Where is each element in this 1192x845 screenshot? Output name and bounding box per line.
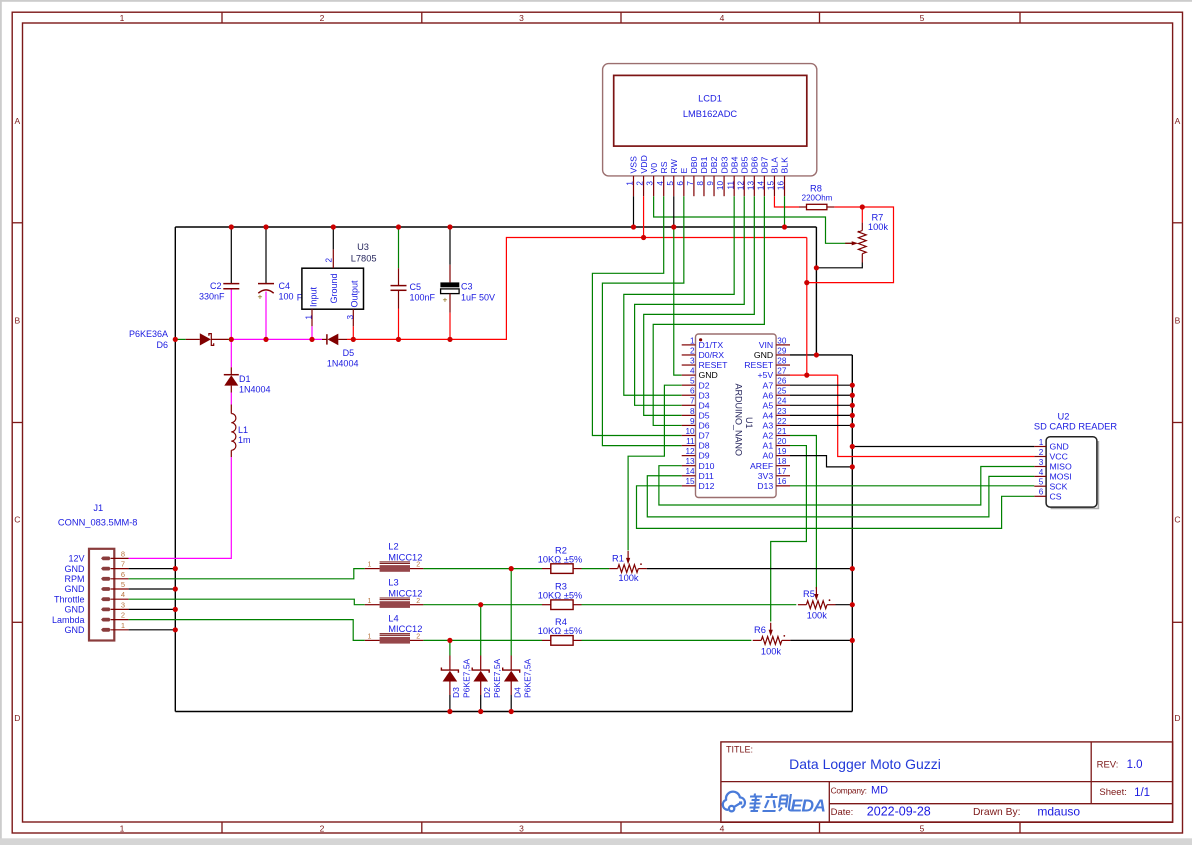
LCD1 pin 15 BLA bbox=[773, 176, 775, 196]
diode D1 1N4004 bbox=[230, 339, 232, 367]
svg-text:P6KE36A: P6KE36A bbox=[129, 329, 168, 339]
wire R4 to R6 bbox=[582, 639, 752, 641]
LCD1 pin 5 RW bbox=[673, 176, 675, 196]
frame column tick top bbox=[819, 12, 821, 23]
resistor R3 10K bbox=[542, 604, 551, 606]
U1 right pin 22 A3 bbox=[776, 424, 790, 426]
svg-text:C: C bbox=[14, 515, 20, 525]
svg-text:V0: V0 bbox=[649, 163, 659, 174]
svg-text:MICC12: MICC12 bbox=[388, 588, 422, 598]
junction A3 bbox=[850, 423, 855, 428]
svg-text:D1: D1 bbox=[239, 374, 251, 384]
svg-text:D3: D3 bbox=[699, 390, 710, 400]
svg-text:12: 12 bbox=[685, 447, 695, 456]
svg-text:L7805: L7805 bbox=[351, 254, 377, 264]
LCD1 pin 3 V0 bbox=[653, 176, 655, 196]
svg-text:D13: D13 bbox=[757, 481, 773, 491]
mcu U1 ARDUINO_NANO body bbox=[696, 334, 777, 498]
connector J1 pin 8 bbox=[101, 557, 111, 561]
svg-text:L3: L3 bbox=[388, 578, 398, 588]
potentiometer R1 bbox=[609, 568, 618, 570]
svg-text:100k: 100k bbox=[618, 573, 639, 583]
svg-text:24: 24 bbox=[777, 397, 787, 406]
svg-text:6: 6 bbox=[1039, 488, 1044, 497]
junction SD GND bbox=[850, 444, 855, 449]
wire A6 to GND edge bbox=[790, 394, 852, 396]
wire LCD DB5 to D4 bbox=[635, 196, 745, 405]
display LCD1 outer body bbox=[603, 64, 817, 176]
svg-text:D4: D4 bbox=[699, 400, 710, 410]
wire R5 to GND edge bbox=[836, 604, 853, 606]
svg-text:MICC12: MICC12 bbox=[388, 624, 422, 634]
wire R2 to R1 bbox=[582, 568, 610, 570]
junction R5 out bbox=[850, 602, 855, 607]
U1 left pin 12 D9 bbox=[682, 455, 696, 457]
junction GND rail VSS bbox=[631, 224, 636, 229]
frame column tick bottom bbox=[819, 822, 821, 833]
junction J1 GND1 bbox=[173, 627, 178, 632]
regulator U3 pin 3 bbox=[352, 309, 354, 326]
wire D11 to SD MOSI bbox=[647, 476, 1034, 517]
U1 left pin 1 D1/TX bbox=[682, 344, 696, 346]
svg-text:A5: A5 bbox=[763, 400, 774, 410]
svg-text:3: 3 bbox=[1039, 458, 1044, 467]
wire D2 to R1 wiper bbox=[628, 385, 682, 550]
junction R7 GND bbox=[814, 265, 819, 270]
junction +5V bbox=[804, 373, 809, 378]
junction J1 GND7 bbox=[173, 566, 178, 571]
wire +5V drop to SD VCC bbox=[838, 375, 1035, 456]
svg-text:20: 20 bbox=[777, 437, 787, 446]
svg-text:100: 100 bbox=[279, 292, 294, 302]
svg-text:MOSI: MOSI bbox=[1050, 472, 1072, 482]
window chrome bottom strip bbox=[0, 838, 1192, 845]
wire R3 to R5 bbox=[582, 604, 797, 606]
junction GND rail C5 bbox=[396, 224, 401, 229]
resistor R4 10K bbox=[542, 639, 551, 641]
LCD1 pin 13 DB6 bbox=[753, 176, 755, 196]
svg-text:RS: RS bbox=[659, 161, 669, 173]
svg-text:D0/RX: D0/RX bbox=[699, 350, 725, 360]
LCD1 pin 16 BLK bbox=[784, 176, 786, 196]
svg-text:1: 1 bbox=[120, 823, 125, 833]
svg-text:+: + bbox=[443, 295, 448, 305]
svg-text:13: 13 bbox=[746, 181, 755, 191]
wire LCD VSS to GND rail bbox=[633, 196, 635, 227]
wire LCD DB7 to D6 bbox=[653, 196, 764, 425]
wire GND drop at x=816 bbox=[815, 227, 817, 355]
capacitor C2 bbox=[230, 227, 232, 283]
svg-text:5: 5 bbox=[666, 181, 675, 186]
wire LCD RS to D7 bbox=[592, 196, 681, 435]
junction L4 D3 bbox=[447, 638, 452, 643]
wire L4 to R4 bbox=[423, 639, 542, 641]
svg-text:D2: D2 bbox=[482, 687, 492, 698]
connector J1 pin 4 bbox=[101, 597, 111, 601]
junction A6 bbox=[850, 393, 855, 398]
LCD1 pin 2 VDD bbox=[643, 176, 645, 196]
R7 wiper arrow bbox=[845, 242, 854, 244]
wire net to diode D3 bbox=[449, 640, 451, 655]
connector J1 pin 6 bbox=[101, 577, 111, 581]
capacitor C4 bbox=[265, 227, 267, 283]
LCD1 pin 11 DB4 bbox=[733, 176, 735, 196]
svg-text:GND: GND bbox=[65, 564, 86, 574]
svg-text:3: 3 bbox=[646, 181, 655, 186]
U1 pin1 marker dot bbox=[699, 338, 702, 341]
svg-text:A: A bbox=[14, 116, 20, 126]
frame row tick left bbox=[12, 222, 22, 224]
svg-text:D11: D11 bbox=[699, 471, 714, 481]
regulator U3 pin 1 bbox=[311, 309, 313, 326]
svg-text:VDD: VDD bbox=[639, 155, 649, 173]
svg-text:10KΩ ±5%: 10KΩ ±5% bbox=[538, 590, 583, 600]
svg-text:Ground: Ground bbox=[329, 273, 339, 303]
R6 wiper arrow bbox=[770, 623, 772, 632]
svg-text:8: 8 bbox=[121, 549, 125, 558]
wire D2 to GND rail bbox=[480, 695, 482, 712]
svg-text:2: 2 bbox=[690, 346, 695, 355]
svg-text:1uF 50V: 1uF 50V bbox=[461, 292, 495, 302]
frame column tick bottom bbox=[421, 822, 423, 833]
svg-text:3: 3 bbox=[121, 600, 125, 609]
svg-text:16: 16 bbox=[777, 181, 786, 191]
svg-text:6: 6 bbox=[676, 181, 685, 186]
frame column tick top bbox=[421, 12, 423, 23]
svg-text:D: D bbox=[1174, 713, 1180, 723]
svg-text:2: 2 bbox=[636, 181, 645, 186]
svg-text:Output: Output bbox=[350, 280, 360, 308]
junction A7 bbox=[850, 383, 855, 388]
svg-text:9: 9 bbox=[690, 417, 695, 426]
svg-text:1: 1 bbox=[367, 634, 371, 641]
LCD1 pin 10 DB3 bbox=[723, 176, 725, 196]
svg-text:2: 2 bbox=[416, 562, 420, 569]
svg-text:12: 12 bbox=[736, 181, 745, 191]
svg-text:Data Logger Moto Guzzi: Data Logger Moto Guzzi bbox=[789, 756, 941, 772]
diode D2 P6KE7,5A bbox=[480, 656, 482, 671]
svg-text:L4: L4 bbox=[388, 613, 398, 623]
svg-text:DB5: DB5 bbox=[739, 156, 749, 173]
svg-text:P6KE7,5A: P6KE7,5A bbox=[523, 658, 533, 698]
junction J1 GND5 bbox=[173, 586, 178, 591]
svg-text:30: 30 bbox=[777, 336, 787, 345]
svg-text:C2: C2 bbox=[210, 281, 222, 291]
svg-text:MICC12: MICC12 bbox=[388, 552, 422, 562]
svg-text:100k: 100k bbox=[868, 222, 889, 232]
svg-text:8: 8 bbox=[690, 407, 695, 416]
svg-text:U3: U3 bbox=[357, 242, 369, 252]
svg-text:4: 4 bbox=[121, 590, 125, 599]
svg-text:MISO: MISO bbox=[1050, 462, 1072, 472]
wire D12 to SD CS bbox=[637, 486, 1035, 529]
svg-text:D4: D4 bbox=[512, 687, 522, 698]
svg-text:1N4004: 1N4004 bbox=[239, 384, 271, 394]
svg-text:D8: D8 bbox=[699, 441, 710, 451]
svg-text:DB3: DB3 bbox=[719, 156, 729, 173]
svg-text:27: 27 bbox=[777, 367, 787, 376]
svg-text:DB2: DB2 bbox=[709, 156, 719, 173]
U1 left pin 4 GND bbox=[682, 374, 696, 376]
svg-text:220Ohm: 220Ohm bbox=[802, 193, 833, 202]
U1 right pin 20 A1 bbox=[776, 445, 790, 447]
svg-text:Date:: Date: bbox=[831, 807, 854, 818]
wire VDD red drop bbox=[806, 238, 808, 376]
LCD1 pin 12 DB5 bbox=[743, 176, 745, 196]
svg-text:D12: D12 bbox=[699, 481, 715, 491]
junction GND rail C4 bbox=[263, 224, 268, 229]
svg-text:D5: D5 bbox=[699, 410, 710, 420]
svg-text:1N4004: 1N4004 bbox=[327, 359, 359, 369]
wire GND right edge bbox=[851, 355, 853, 712]
svg-text:RW: RW bbox=[669, 158, 679, 173]
wire R1 to GND edge bbox=[647, 568, 853, 570]
frame column tick top bbox=[221, 12, 223, 23]
window chrome left strip bbox=[0, 0, 2, 845]
svg-text:9: 9 bbox=[706, 181, 715, 186]
svg-text:7: 7 bbox=[121, 560, 125, 569]
junction R6 out bbox=[850, 638, 855, 643]
svg-text:A6: A6 bbox=[763, 390, 774, 400]
U2 pin 6 CS bbox=[1034, 495, 1046, 497]
U1 right pin 21 A2 bbox=[776, 435, 790, 437]
junction node U3 pin3 bbox=[351, 337, 356, 342]
svg-text:GND: GND bbox=[754, 350, 773, 360]
svg-text:C4: C4 bbox=[279, 281, 291, 291]
junction GND corner bbox=[814, 352, 819, 357]
svg-text:R7: R7 bbox=[871, 213, 883, 223]
svg-text:10KΩ ±5%: 10KΩ ±5% bbox=[538, 554, 583, 564]
U2 pin 1 GND bbox=[1034, 446, 1046, 448]
wire J1 GND pin1 bbox=[129, 629, 176, 631]
U1 left pin 9 D6 bbox=[682, 424, 696, 426]
wire D10 to SD MISO bbox=[659, 466, 1034, 505]
junction D4 GND bbox=[509, 709, 514, 714]
svg-text:4: 4 bbox=[1039, 468, 1044, 477]
U1 left pin 14 D11 bbox=[682, 475, 696, 477]
svg-text:11: 11 bbox=[686, 437, 695, 446]
svg-text:1: 1 bbox=[304, 315, 313, 320]
wire LCD BLA to R8 bbox=[774, 196, 799, 207]
junction GND rail U3 bbox=[331, 224, 336, 229]
svg-text:J1: J1 bbox=[93, 503, 103, 513]
LCD1 pin 1 VSS bbox=[633, 176, 635, 196]
capacitor C3 bbox=[449, 227, 451, 265]
svg-text:B: B bbox=[14, 316, 20, 326]
svg-text:MD: MD bbox=[871, 785, 888, 797]
wire J1 GND pin5 bbox=[129, 588, 176, 590]
svg-text:5: 5 bbox=[690, 377, 695, 386]
svg-text:BLK: BLK bbox=[780, 157, 790, 174]
svg-text:17: 17 bbox=[777, 467, 787, 476]
svg-text:P6KE7,5A: P6KE7,5A bbox=[461, 658, 471, 698]
R5 wiper arrow bbox=[815, 587, 817, 596]
svg-text:D1/TX: D1/TX bbox=[699, 340, 724, 350]
connector J1 pin 7 bbox=[101, 567, 111, 571]
wire A0 jog to GND edge bbox=[790, 456, 852, 467]
U1 right pin 17 3V3 bbox=[776, 475, 790, 477]
U1 right pin 18 AREF bbox=[776, 465, 790, 467]
U1 left pin 5 D2 bbox=[682, 384, 696, 386]
svg-text:D6: D6 bbox=[699, 421, 710, 431]
svg-text:3V3: 3V3 bbox=[758, 471, 774, 481]
connector J1 pin 2 bbox=[101, 618, 111, 622]
LCD1 pin 4 RS bbox=[663, 176, 665, 196]
frame column tick top bbox=[1019, 12, 1021, 23]
svg-text:EDA: EDA bbox=[791, 796, 826, 816]
inductor L2 MICC12 bbox=[365, 568, 380, 570]
wire A7 to GND edge bbox=[790, 384, 852, 386]
wire J1 GND pin7 bbox=[129, 568, 176, 570]
LCD1 pin 6 E bbox=[683, 176, 685, 196]
svg-text:4: 4 bbox=[690, 367, 695, 376]
svg-text:330nF: 330nF bbox=[199, 292, 225, 302]
svg-text:A: A bbox=[1175, 116, 1181, 126]
svg-text:28: 28 bbox=[777, 356, 787, 365]
title block outline bbox=[721, 742, 1173, 822]
junction J1 GND3 bbox=[173, 607, 178, 612]
svg-text:B: B bbox=[1175, 316, 1181, 326]
svg-text:P6KE7,5A: P6KE7,5A bbox=[492, 658, 502, 698]
svg-text:mdauso: mdauso bbox=[1037, 805, 1080, 819]
svg-text:SCK: SCK bbox=[1050, 481, 1068, 491]
wire LCD VDD to 5V rail bbox=[643, 196, 645, 237]
svg-text:14: 14 bbox=[756, 181, 765, 191]
U1 left pin 8 D5 bbox=[682, 414, 696, 416]
svg-text:3: 3 bbox=[690, 356, 695, 365]
U1 right pin 23 A4 bbox=[776, 414, 790, 416]
svg-text:CONN_083.5MM-8: CONN_083.5MM-8 bbox=[58, 518, 138, 528]
svg-text:100nF: 100nF bbox=[410, 292, 436, 302]
svg-text:18: 18 bbox=[777, 457, 787, 466]
wire LCD RW to GND rail bbox=[673, 196, 675, 227]
svg-text:E: E bbox=[679, 168, 689, 174]
svg-text:2: 2 bbox=[320, 823, 325, 833]
svg-text:D3: D3 bbox=[451, 687, 461, 698]
junction D2 GND bbox=[478, 709, 483, 714]
junction GND rail C2 bbox=[229, 224, 234, 229]
svg-text:C3: C3 bbox=[461, 282, 473, 292]
svg-text:DB1: DB1 bbox=[699, 156, 709, 173]
U2 pin 4 MOSI bbox=[1034, 475, 1046, 477]
wire A5 to GND edge bbox=[790, 404, 852, 406]
U1 left pin 6 D3 bbox=[682, 394, 696, 396]
svg-text:1: 1 bbox=[121, 621, 125, 630]
junction node D6 bbox=[173, 337, 178, 342]
svg-text:4: 4 bbox=[720, 13, 725, 23]
wire A2 to R5 wiper bbox=[790, 436, 816, 589]
U1 right pin 30 VIN bbox=[776, 344, 790, 346]
svg-text:A7: A7 bbox=[763, 380, 774, 390]
wire Lambda to L4 bbox=[129, 620, 365, 641]
svg-text:D6: D6 bbox=[156, 340, 168, 350]
svg-text:R1: R1 bbox=[612, 553, 624, 563]
junction A0 bbox=[850, 464, 855, 469]
logo cloud icon bbox=[723, 792, 745, 812]
window chrome top strip bbox=[0, 0, 1192, 2]
svg-text:Sheet:: Sheet: bbox=[1099, 787, 1126, 798]
wire D13 to SD SCK bbox=[790, 485, 1034, 487]
svg-text:6: 6 bbox=[121, 570, 125, 579]
connector J1 pin 3 bbox=[101, 608, 111, 612]
junction GND rail C3 bbox=[447, 224, 452, 229]
wire +5V arduino pin27 bbox=[790, 374, 838, 376]
svg-text:+: + bbox=[258, 291, 263, 301]
title block row divider 2 bbox=[829, 803, 1172, 805]
wire D3 to GND rail bbox=[449, 695, 451, 712]
U1 left pin 15 D12 bbox=[682, 485, 696, 487]
svg-text:1: 1 bbox=[626, 181, 635, 186]
wire Throttle to L3 bbox=[129, 599, 365, 605]
frame row tick right bbox=[1173, 621, 1183, 623]
diode D6 P6KE36A bbox=[175, 338, 185, 340]
junction node C5 bbox=[396, 337, 401, 342]
svg-text:Company:: Company: bbox=[831, 786, 867, 796]
frame column tick bottom bbox=[221, 822, 223, 833]
regulator U3 body bbox=[302, 268, 364, 309]
connector J1 body bbox=[89, 549, 114, 641]
svg-text:D5: D5 bbox=[343, 348, 355, 358]
svg-text:14: 14 bbox=[685, 467, 695, 476]
potentiometer R5 bbox=[798, 604, 807, 606]
wire U3 pin3 to node bbox=[352, 326, 354, 339]
svg-text:2: 2 bbox=[1039, 448, 1044, 457]
wire R7 bottom to GND bbox=[816, 263, 862, 268]
svg-text:26: 26 bbox=[777, 377, 787, 386]
junction A5 bbox=[850, 403, 855, 408]
svg-text:CS: CS bbox=[1050, 491, 1062, 501]
svg-text:1: 1 bbox=[120, 13, 125, 23]
svg-text:3: 3 bbox=[519, 13, 524, 23]
svg-text:Input: Input bbox=[308, 286, 318, 307]
module U2 SD CARD READER shadow bbox=[1051, 441, 1099, 509]
diode D4 P6KE7,5A bbox=[510, 656, 512, 671]
svg-text:+5V: +5V bbox=[757, 370, 773, 380]
wire GND bottom rail bbox=[175, 711, 852, 713]
junction 5V rail VDD bbox=[641, 235, 646, 240]
svg-text:C: C bbox=[1174, 515, 1180, 525]
junction node C3 bbox=[447, 337, 452, 342]
wire net to diode D2 bbox=[480, 605, 482, 656]
svg-text:DB6: DB6 bbox=[750, 156, 760, 173]
junction GND rail RW bbox=[671, 224, 676, 229]
svg-text:25: 25 bbox=[777, 387, 787, 396]
U1 right pin 29 GND bbox=[776, 354, 790, 356]
svg-text:2: 2 bbox=[121, 611, 125, 620]
svg-text:ARDUINO_NANO: ARDUINO_NANO bbox=[734, 384, 744, 457]
frame column tick bottom bbox=[1019, 822, 1021, 833]
svg-text:12V: 12V bbox=[68, 554, 84, 564]
svg-text:3: 3 bbox=[346, 315, 355, 320]
title block rev-sheet divider bbox=[1090, 742, 1092, 804]
svg-text:10KΩ ±5%: 10KΩ ±5% bbox=[538, 626, 583, 636]
svg-text:100k: 100k bbox=[807, 611, 828, 621]
svg-text:GND: GND bbox=[699, 370, 718, 380]
wire GND top rail bbox=[175, 226, 816, 228]
wire LCD DB4 to D3 bbox=[624, 196, 734, 395]
svg-text:RESET: RESET bbox=[699, 360, 729, 370]
wire GND green to arduino pin4 bbox=[674, 227, 682, 375]
junction node C2 bbox=[229, 337, 234, 342]
module U2 SD CARD READER body bbox=[1046, 437, 1097, 507]
svg-text:GND: GND bbox=[65, 625, 86, 635]
svg-text:D: D bbox=[14, 713, 20, 723]
svg-text:5: 5 bbox=[920, 13, 925, 23]
svg-text:1: 1 bbox=[690, 336, 695, 345]
U2 pin 5 SCK bbox=[1034, 485, 1046, 487]
wire 12V node row magenta bbox=[231, 338, 322, 340]
junction R1 out bbox=[850, 566, 855, 571]
